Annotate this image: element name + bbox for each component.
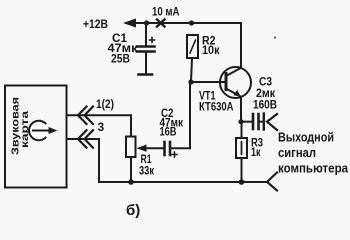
connector chevrons on wire 1(2): [78, 107, 93, 125]
transistor VT1: [220, 67, 251, 98]
current break X (10 mA measuring point): [157, 20, 165, 27]
sound card source symbol (circle with arrow): [29, 121, 57, 141]
resistor R2: [187, 35, 198, 82]
node: R3 bottom junction: [239, 179, 245, 185]
wire: bottom rail: [99, 181, 267, 183]
connector pin bar (C3 output): [263, 114, 265, 130]
capacitor C2: [165, 142, 191, 157]
node: C1 top junction: [144, 20, 149, 25]
scan speck: [274, 36, 276, 38]
svg-text:10 мА: 10 мА: [152, 5, 180, 19]
svg-text:25В: 25В: [111, 52, 130, 66]
connector socket fork (bottom): [267, 173, 277, 191]
node: emitter / C3 / R3 junction: [238, 119, 243, 124]
node: base junction: [188, 79, 193, 84]
svg-text:компьютера: компьютера: [278, 161, 349, 176]
svg-text:сигнал: сигнал: [278, 145, 316, 160]
svg-text:10к: 10к: [202, 43, 220, 57]
svg-text:33к: 33к: [139, 164, 155, 178]
capacitor C3: [253, 114, 263, 129]
svg-text:КТ630А: КТ630А: [199, 100, 234, 114]
wire 3 from sound card down to bottom rail: [67, 139, 99, 182]
svg-text:3: 3: [98, 120, 105, 134]
wire to C3: [241, 121, 252, 123]
ground (common) bar below C1: [139, 73, 153, 76]
potentiometer R1: [126, 137, 163, 183]
wire: base: [191, 81, 225, 83]
svg-text:160В: 160В: [253, 98, 277, 112]
wire: emitter down: [240, 97, 242, 123]
+12V supply arrow: [123, 19, 136, 28]
connector socket fork (output): [267, 114, 277, 130]
svg-text:+12В: +12В: [83, 17, 108, 31]
svg-text:Выходной: Выходной: [278, 130, 334, 145]
svg-text:16В: 16В: [160, 125, 177, 139]
svg-text:1(2): 1(2): [96, 97, 114, 111]
svg-text:б): б): [126, 202, 140, 219]
wire: C2 up to base junction: [189, 82, 191, 148]
node: R2 top junction: [189, 20, 194, 25]
capacitor C1: [137, 23, 155, 74]
node: R1 bottom junction: [128, 179, 134, 185]
connector chevrons on wire 3: [78, 130, 93, 148]
svg-text:карта: карта: [19, 111, 31, 148]
sound card box: [5, 86, 67, 188]
resistor R3: [236, 122, 247, 182]
wire 1(2) from sound card to R1: [67, 115, 131, 136]
svg-text:1к: 1к: [251, 145, 261, 159]
wire +12V top rail: [133, 23, 241, 68]
